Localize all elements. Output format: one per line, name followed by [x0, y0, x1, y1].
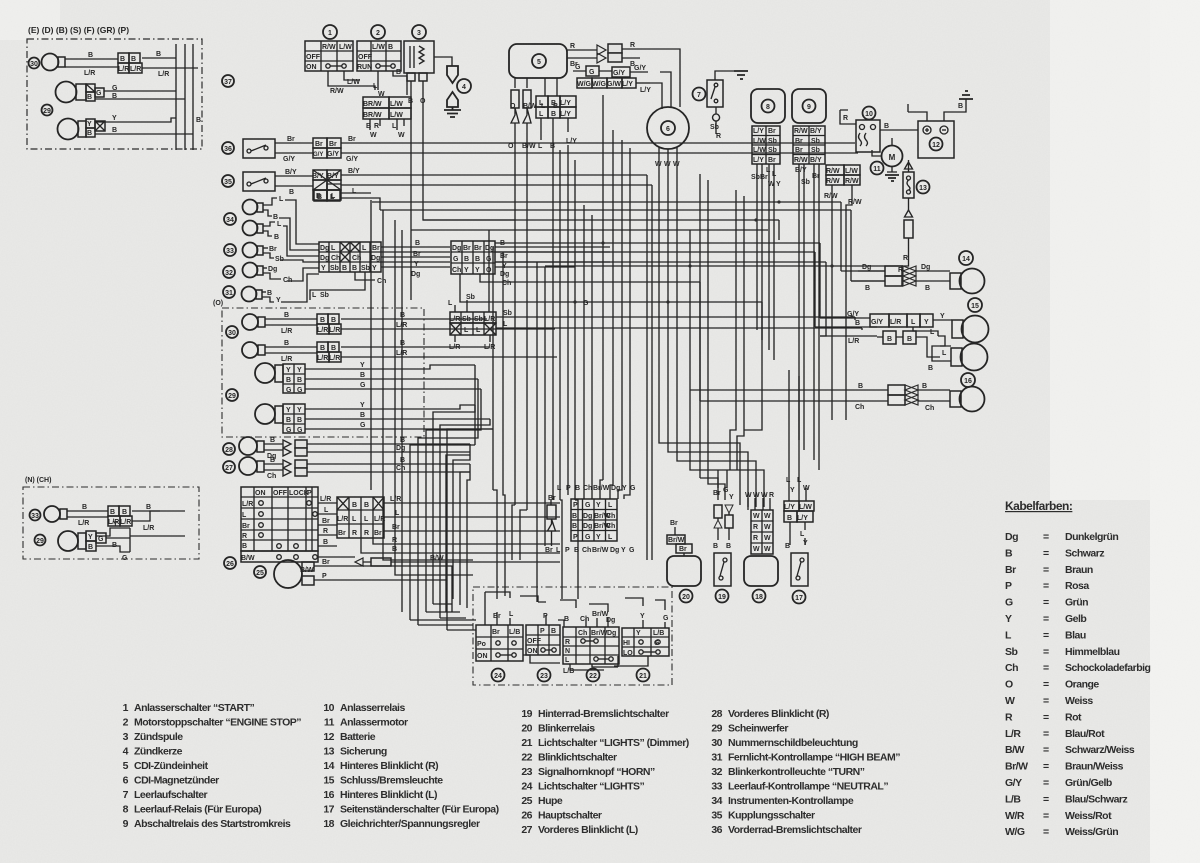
legend column 1 items 1-9 [123, 702, 302, 830]
headlight Y2 B2 G2 wires down [433, 405, 493, 525]
wire L bus from 35 [341, 185, 520, 195]
junction bundle into dashed box top [410, 604, 476, 630]
magneto input curves [648, 49, 680, 109]
connector G box with cross [86, 84, 104, 101]
rectifier 18 body [744, 556, 778, 586]
brake switch 35 [222, 175, 234, 187]
diode connectors 28 [283, 437, 470, 456]
wire bus vertical 560 [560, 150, 562, 599]
wire bus vertical from coil B [410, 95, 412, 300]
wire B from 29a [95, 93, 185, 100]
bulb 30 NCH [44, 504, 108, 527]
wire bus vertical 568 575 [568, 145, 578, 599]
long horizontal B 243 [495, 243, 820, 318]
connector pair NCH 30 [108, 504, 185, 532]
(N)(CH) dashed enclosure [23, 477, 199, 559]
wire bus vertical 553 [552, 140, 554, 500]
side stand switch 17 label [793, 591, 806, 604]
neutral switch 7 label [693, 88, 706, 101]
headlight G wire down [426, 389, 481, 510]
wire Br from 36 [275, 136, 313, 143]
tail lamp 15 bulb lower [951, 344, 988, 371]
connector G box [573, 64, 612, 76]
horn 25 [254, 566, 266, 578]
neutral switch 7 [707, 71, 734, 140]
engine stop switch 2 label [371, 25, 385, 39]
relay 9 connector grid [793, 126, 825, 186]
circled 24 [492, 669, 505, 682]
CDI output wires right [567, 43, 597, 68]
vertical bus 410-447 into switches [410, 500, 447, 630]
wires below switches 1-2 [328, 69, 407, 98]
switch grid 22 turn [563, 627, 619, 675]
wires at lower connector [448, 294, 862, 351]
spark plug 4 wire [434, 57, 452, 66]
bulb 27 [239, 457, 283, 480]
indicator bulb 34 [224, 213, 236, 225]
bus line 3 [192, 44, 194, 150]
wire bus vertical 395 [395, 220, 473, 575]
handlebar connector grid [571, 499, 617, 541]
lower connector L/R Sb [449, 312, 496, 335]
wire bus vertical 622 630 [618, 140, 630, 499]
wire bus vertical 584 592 [584, 205, 592, 499]
ignition coil 3 [404, 41, 434, 105]
clutch switch 36 [222, 142, 234, 154]
legend column 2 items 10-18 [323, 702, 498, 830]
rectifier 18 W wires [745, 492, 774, 510]
connector Br G/Y pair [313, 138, 341, 158]
long horizontal 230 [411, 229, 768, 231]
wire Y from 29b [95, 115, 176, 122]
start switch 1 grid [305, 41, 353, 71]
W bundle from magneto stepping to rectifier [659, 158, 756, 507]
ignition coil 3 label [412, 25, 426, 39]
long horizontal pair from B L box [314, 184, 380, 210]
wire bus vertical 527 CDI BW [520, 140, 527, 560]
bulb 29 NCH [58, 531, 86, 551]
front flasher 27 [223, 461, 235, 473]
legend column 3 items 19-27 [521, 708, 688, 836]
rectifier 18 label [753, 590, 766, 603]
instrument connector grid left [319, 242, 381, 272]
connector YBG grid 29a [283, 362, 481, 394]
brake switch 19 body [714, 553, 731, 586]
indicator bulb 32 [223, 266, 235, 278]
switch grid 24 lights [476, 625, 523, 661]
bulb 30b in O box [242, 340, 317, 363]
wire bus vertical 700 708 from switch 7 [700, 174, 725, 500]
connector YBG NCH [86, 521, 185, 562]
main switch 26 [224, 557, 236, 569]
bulb 29a headlamp [56, 82, 87, 103]
wire bus vertical 603 [600, 95, 603, 499]
connector B,L/R pair 30a [317, 312, 555, 334]
magneto 6 [647, 107, 689, 149]
brake switch 19 diodes [713, 470, 734, 550]
wire bus vertical 832 R/W [832, 192, 852, 420]
bulb 30a in O box [242, 312, 317, 335]
CDI unit 5 [509, 44, 567, 78]
top-left dashed enclosure [27, 39, 202, 149]
long horizontal Ch 282 [500, 282, 851, 401]
connector W/G W/G row [577, 78, 651, 94]
starter motor 11 [872, 138, 903, 181]
bus line 2 [184, 44, 186, 150]
starter relay 10 [840, 110, 918, 152]
bulb 33 [243, 243, 284, 264]
wire R to left from fuse [545, 252, 909, 274]
legend column 4 items 28-36 [711, 708, 900, 836]
R wire stepping to rectifier [690, 230, 764, 507]
Br fuse left of handlebar connector [547, 500, 556, 546]
(O) market dashed enclosure [213, 300, 424, 437]
starter relay 10 label [863, 107, 876, 120]
connector G/Y boxes [612, 65, 648, 77]
diode pair with box (to battery R) [597, 42, 648, 68]
R/W L/W connector rows [824, 165, 862, 206]
wire bus vertical left 371 [370, 200, 372, 490]
rear flasher 14 bulb [950, 269, 985, 294]
node 29 label in O box [226, 389, 238, 401]
wires 26 to connector [318, 496, 337, 546]
horn 25 body [274, 559, 452, 612]
wire Br bus from 36 [341, 136, 855, 143]
wire L/R from bulb 30 [65, 67, 118, 77]
wire bus vertical left 383 [383, 210, 473, 560]
relay 9 body [792, 89, 826, 123]
bulb 34b [243, 221, 283, 242]
bulb 29b headlamp [58, 119, 87, 140]
Kabelfarben colour-code table [1005, 499, 1151, 838]
flasher B Dg wires bend down [446, 444, 470, 612]
wire B to bus [142, 51, 176, 58]
rear flasher 16 bulb [950, 387, 985, 412]
headlight Y wire down [410, 365, 475, 500]
starter motor 11 label [871, 162, 884, 175]
battery 12 [908, 103, 963, 158]
wire B from 29b [95, 127, 193, 134]
long horizontal 210 [380, 210, 885, 281]
spark plug 4 label [457, 79, 471, 93]
relay 8 connector grid [751, 126, 781, 188]
node 33 label NCH [30, 510, 41, 521]
fuse symbols below CDI [508, 90, 536, 150]
wire bus vertical 503 [503, 252, 505, 596]
wire G from 29a [104, 85, 176, 92]
rectifier 18 connector grid [751, 510, 773, 554]
connector grid 26 right [337, 497, 385, 538]
CDI bottom wires [510, 78, 558, 110]
node 30 label in O box [226, 326, 238, 338]
headlamp bulb 29a in O box [255, 363, 283, 383]
legend text columns [123, 702, 901, 836]
indicator bulb 31 [223, 286, 235, 298]
relay 8 body [751, 89, 785, 123]
wire bus vertical from relay 8 [757, 172, 774, 360]
flasher relay 20 label [680, 590, 693, 603]
wire B/Y bus from 35 [341, 168, 520, 175]
bulb 34a [243, 196, 285, 221]
circled 22 [587, 669, 600, 682]
long horizontal Br 252 [495, 252, 815, 327]
secondary fuse below 13 [903, 210, 913, 262]
front flasher 28 [223, 443, 235, 455]
diode connectors 14 [851, 264, 950, 292]
wire B from bulb 30 [65, 52, 118, 59]
long horizontal B/Y extension [520, 175, 652, 560]
bulb 28 [239, 437, 283, 460]
wire bus vertical 515 CDI O [512, 140, 515, 560]
rear flasher 14 label [959, 251, 973, 265]
tail lamp 15 bulb upper [952, 316, 989, 343]
wire bus vertical 537 [537, 262, 545, 602]
circled 23 [538, 669, 551, 682]
main switch 26 grid [241, 487, 318, 562]
connector B,L/R pair 30b [317, 340, 557, 362]
flasher relay 20 connectors [667, 520, 692, 556]
switch 36 box [243, 139, 275, 158]
bus line 1 [175, 44, 177, 150]
connector BR/W L/W stack [363, 97, 411, 139]
wire bus vertical from relay 9 [799, 170, 819, 470]
connector B/Y cross pair [312, 170, 341, 200]
spark plug 4 [444, 66, 461, 117]
side stand switch 17 connectors [784, 477, 814, 550]
diode connectors 27 [283, 457, 470, 476]
long horizontal 202 [372, 202, 885, 271]
wire G/Y bus from 36 [341, 153, 858, 163]
fuse 13 [903, 160, 914, 210]
Sb L to 15 G/Y L/R [855, 317, 862, 330]
handlebar switches dashed enclosure [473, 587, 672, 685]
ground at 7 [734, 71, 748, 79]
wire G/Y from 36 [275, 153, 313, 163]
instrument connector grid right [451, 241, 495, 274]
connector L B L/Y rows [536, 96, 577, 150]
connector YBG grid 29b [283, 402, 493, 434]
handlebar bundle labels top [548, 485, 636, 502]
node 37 label [222, 75, 234, 87]
indicator bulb 33 [224, 244, 236, 256]
switch grid 23 horn [526, 625, 560, 655]
start switch 1 label [323, 25, 337, 39]
wire bus vertical 402 [401, 230, 403, 612]
long horizontal G 302 [580, 302, 762, 430]
wires into dashed box [493, 611, 669, 628]
switch grid 21 dimmer [622, 628, 669, 657]
wire bus vertical from coil O [423, 95, 515, 220]
tail lamp 15 label [968, 298, 982, 312]
wires inside dashed box connecting grids [485, 592, 665, 670]
rear flasher 16 label [961, 373, 975, 387]
junction dots [573, 200, 853, 318]
B/W diode and fuse to right [300, 555, 560, 574]
wires right of grid [460, 240, 610, 307]
bulb 30 tail lamp [42, 54, 66, 71]
node 29 label NCH [35, 535, 46, 546]
bulb 32 [243, 263, 293, 285]
label B on bus [196, 117, 201, 124]
node 29 headlight label [42, 105, 53, 116]
wire B/Y from 35 [275, 169, 313, 176]
engine stop switch 2 grid [357, 41, 401, 71]
wires bundle 34-31 to connector [279, 200, 319, 302]
switch 35 box [243, 172, 275, 191]
brake switch 19 label [716, 590, 729, 603]
wire B from 35 [275, 186, 313, 196]
handlebar bundle labels bottom [545, 547, 635, 554]
side stand switch 17 body [791, 553, 808, 586]
diode connectors 16 [843, 383, 950, 412]
node 30 tail light circle label [29, 58, 40, 69]
wire bus vertical 489 [488, 230, 490, 312]
wire bus vertical 493 long [493, 247, 497, 599]
wire bus vertical 613 [610, 130, 613, 499]
L L wires to sidestand [789, 370, 799, 484]
market code labels (E)(D)(B)(S)(F)(GR)(P) [28, 25, 129, 35]
bulb 31 [242, 287, 282, 305]
long horizontal 220 [423, 220, 779, 240]
headlight B wire down [418, 379, 478, 505]
flasher relay 20 body [667, 556, 701, 586]
wire L/R to bus [142, 68, 198, 78]
connector pair B/B L/R [118, 53, 142, 73]
wire bus vertical 736 744 [730, 190, 744, 470]
wires right of 26 connector [361, 496, 560, 553]
ground at battery [957, 91, 973, 112]
circled 21 [637, 669, 650, 682]
long horizontal Y 262 [495, 262, 826, 336]
magneto W wires [655, 147, 680, 168]
long horizontal B to 16 [690, 389, 843, 391]
connector G/Y L/R L Y boxes 15 [815, 311, 952, 372]
connector Y/B boxes with cross [86, 119, 105, 137]
fuse 13 label [917, 181, 930, 194]
wires from grid to mid labels [310, 240, 450, 300]
headlamp bulb 29b in O box [255, 404, 283, 424]
